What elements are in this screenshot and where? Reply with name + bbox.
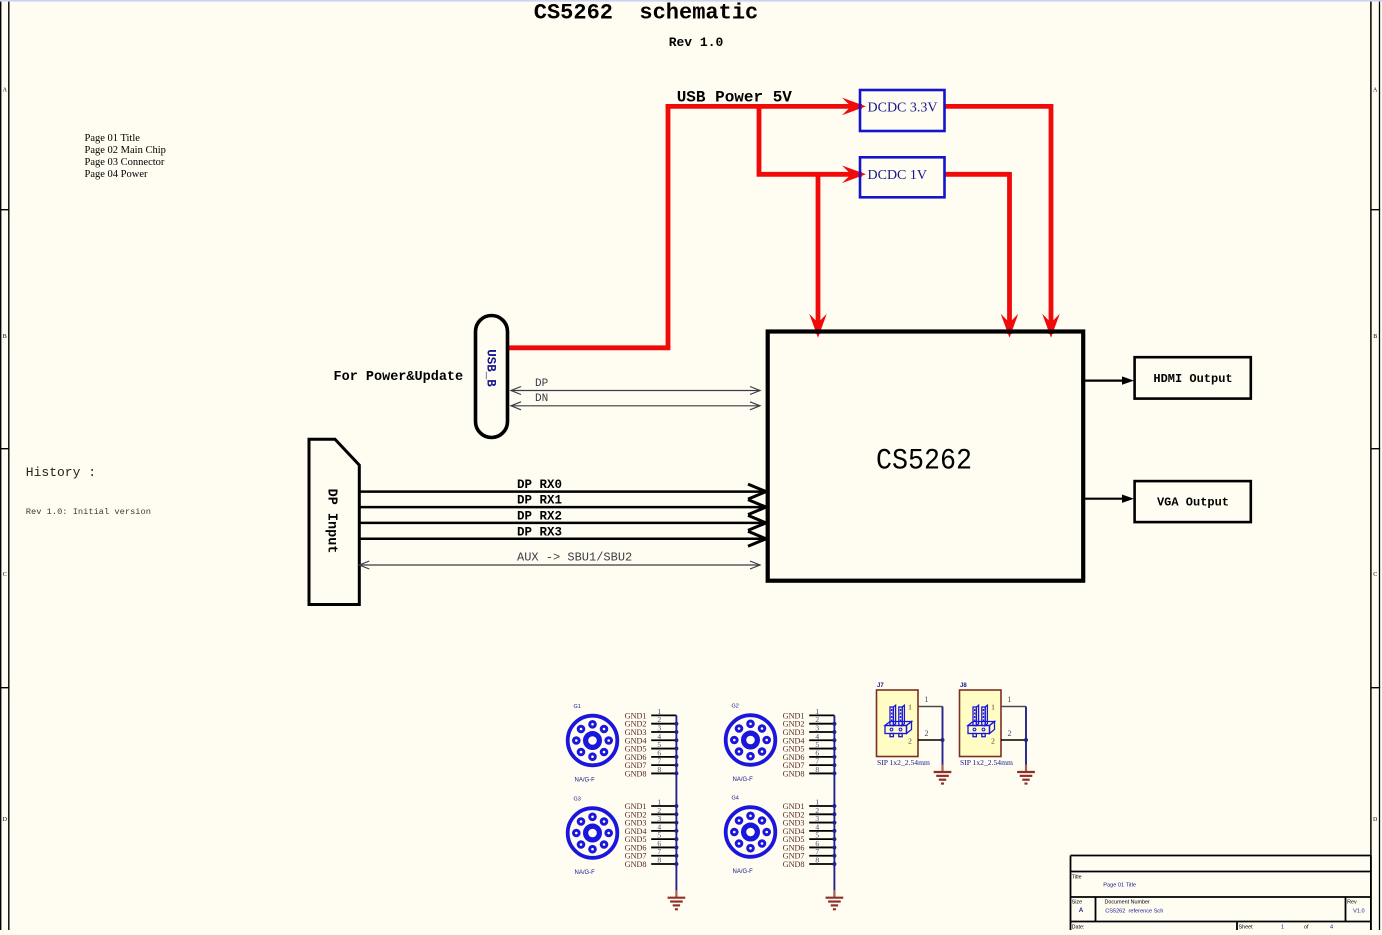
connector G4 value NA/G-F bbox=[733, 869, 754, 875]
svg-text:Rev 1.0: Initial version: Rev 1.0: Initial version bbox=[26, 507, 151, 517]
svg-text:B: B bbox=[3, 334, 7, 340]
jumper J8 pin 1 number bbox=[1008, 695, 1012, 704]
jumper J7 pin 1 wire bbox=[918, 706, 943, 708]
jumper J7 pin 2 number bbox=[925, 729, 929, 738]
connector G3 reference label bbox=[574, 797, 581, 803]
svg-text:8: 8 bbox=[657, 856, 661, 865]
sheet title CS5262 schematic bbox=[534, 1, 758, 26]
svg-text:B: B bbox=[1373, 334, 1377, 340]
label DP bbox=[535, 378, 549, 390]
svg-text:A: A bbox=[3, 88, 8, 94]
block HDMI Output bbox=[1135, 357, 1251, 398]
jumper J8 header icon bbox=[968, 705, 995, 737]
connector G2 value NA/G-F bbox=[733, 777, 754, 783]
svg-text:USB Power 5V: USB Power 5V bbox=[677, 89, 793, 107]
svg-text:G3: G3 bbox=[574, 797, 581, 803]
jumper J7 pin 1 number bbox=[925, 695, 929, 704]
wire 1V output horizontal bbox=[945, 172, 1010, 177]
jumper J8 pin 2 inside bbox=[991, 737, 995, 746]
svg-text:2: 2 bbox=[908, 737, 912, 746]
label DN bbox=[535, 393, 548, 405]
connector G1 pins GND1-GND8 bbox=[625, 707, 679, 779]
svg-text:GND8: GND8 bbox=[783, 860, 805, 869]
jumper J8 reference label bbox=[960, 683, 967, 689]
svg-text:Title: Title bbox=[1072, 875, 1082, 881]
title block rev value bbox=[1353, 908, 1365, 914]
svg-text:NA/G-F: NA/G-F bbox=[733, 869, 754, 875]
svg-text:1: 1 bbox=[1008, 695, 1012, 704]
svg-text:DP RX2: DP RX2 bbox=[517, 509, 562, 523]
svg-text:J8: J8 bbox=[960, 683, 967, 689]
connector G2 circular face bbox=[726, 715, 776, 765]
jumper J7 value SIP 1x2_2.54mm bbox=[877, 758, 930, 767]
wire AUX to SBU line bbox=[359, 561, 760, 569]
svg-text:USB_B: USB_B bbox=[484, 349, 498, 387]
svg-text:G1: G1 bbox=[574, 704, 581, 710]
svg-text:Rev: Rev bbox=[1347, 900, 1357, 906]
svg-text:History :: History : bbox=[26, 465, 96, 480]
sheet border right inner line bbox=[1370, 2, 1372, 930]
wire DP RX1 bbox=[359, 500, 766, 515]
connector G2 pins GND1-GND8 bbox=[783, 707, 837, 779]
title block Rev label bbox=[1347, 900, 1357, 906]
svg-text:1: 1 bbox=[908, 703, 912, 712]
connector G1 circular face bbox=[568, 716, 618, 766]
block VGA Output bbox=[1135, 481, 1251, 522]
label AUX -> SBU1/SBU2 bbox=[517, 551, 632, 565]
block DCDC 1V bbox=[860, 157, 945, 197]
wire DN data line bbox=[511, 402, 760, 410]
svg-text:Size: Size bbox=[1072, 899, 1083, 905]
label USB Power 5V bbox=[677, 89, 793, 107]
history heading text bbox=[26, 465, 96, 480]
wire DP data line bbox=[511, 387, 760, 395]
svg-text:SIP 1x2_2.54mm: SIP 1x2_2.54mm bbox=[877, 758, 930, 767]
svg-text:1: 1 bbox=[991, 703, 995, 712]
connector DP Input label bbox=[324, 489, 339, 554]
svg-text:DCDC 1V: DCDC 1V bbox=[868, 168, 928, 183]
title block document number value bbox=[1105, 908, 1163, 914]
sheet border right outer line bbox=[1379, 2, 1381, 930]
title block page title value bbox=[1103, 882, 1136, 888]
connector USB_B label bbox=[484, 349, 498, 387]
chip CS5262 label bbox=[876, 445, 972, 479]
svg-text:1: 1 bbox=[1281, 924, 1284, 930]
svg-text:8: 8 bbox=[657, 765, 661, 774]
connector G3 circular face bbox=[568, 808, 618, 858]
title block Sheet label bbox=[1239, 924, 1254, 930]
sheet border zone letters A-D bbox=[3, 88, 1378, 824]
svg-text:1: 1 bbox=[925, 695, 929, 704]
jumper J7 pin 2 wire bbox=[918, 739, 943, 741]
wire to HDMI Output bbox=[1084, 376, 1135, 384]
title block sheet count bbox=[1330, 924, 1333, 930]
svg-text:Page 03 Connector: Page 03 Connector bbox=[85, 157, 165, 168]
svg-text:GND8: GND8 bbox=[625, 769, 647, 778]
jumper J7 ground symbol bbox=[934, 772, 952, 784]
wire 3.3V output vertical drop bbox=[1049, 104, 1054, 334]
svg-text:G2: G2 bbox=[732, 704, 739, 710]
jumper J7 header icon bbox=[885, 705, 912, 737]
svg-text:CS5262: CS5262 bbox=[876, 445, 972, 479]
block DCDC 3.3V bbox=[860, 90, 945, 131]
jumper J8 pin 2 wire bbox=[1001, 739, 1026, 741]
svg-text:D: D bbox=[3, 817, 8, 823]
sheet subtitle Rev 1.0 bbox=[669, 35, 724, 50]
svg-text:GND8: GND8 bbox=[783, 769, 805, 778]
arrowhead into DCDC 1V bbox=[842, 166, 866, 184]
connector G3 value NA/G-F bbox=[575, 870, 596, 876]
ground symbol right column bbox=[826, 898, 844, 910]
title block Title label bbox=[1072, 875, 1082, 881]
connector USB_B body bbox=[476, 316, 508, 438]
jumper J8 pin 1 inside bbox=[991, 703, 995, 712]
title block of label bbox=[1304, 924, 1309, 930]
svg-text:Page 01 Title: Page 01 Title bbox=[85, 133, 141, 144]
svg-text:8: 8 bbox=[815, 856, 819, 865]
chip CS5262 body bbox=[768, 332, 1083, 581]
label DP RX2 bbox=[517, 509, 562, 523]
label DP RX1 bbox=[517, 494, 562, 508]
svg-text:V1.0: V1.0 bbox=[1353, 908, 1365, 914]
label For Power&Update bbox=[334, 370, 464, 385]
wire 1V output vertical drop bbox=[1007, 172, 1012, 334]
svg-text:DP Input: DP Input bbox=[324, 489, 339, 554]
wire 5V vertical from USB_B riser bbox=[666, 104, 671, 348]
svg-text:D: D bbox=[1373, 817, 1378, 823]
connector G4 circular face bbox=[726, 807, 776, 857]
jumper J7 reference label bbox=[877, 683, 884, 689]
arrowhead 3.3V into CS5262 top bbox=[1042, 314, 1060, 338]
jumper J8 value SIP 1x2_2.54mm bbox=[960, 758, 1013, 767]
arrowhead into DCDC 3.3V bbox=[842, 98, 866, 116]
svg-text:Date:: Date: bbox=[1072, 924, 1085, 930]
svg-text:VGA Output: VGA Output bbox=[1157, 496, 1229, 510]
jumper J8 ground symbol bbox=[1017, 772, 1035, 784]
jumper J7 body bbox=[877, 690, 919, 757]
svg-text:of: of bbox=[1304, 924, 1309, 930]
svg-text:Page 04 Power: Page 04 Power bbox=[85, 169, 148, 180]
connector G4 pins GND1-GND8 bbox=[783, 798, 837, 870]
svg-text:2: 2 bbox=[925, 729, 929, 738]
wire 5V drop into CS5262 bbox=[816, 174, 821, 334]
svg-text:NA/G-F: NA/G-F bbox=[575, 870, 596, 876]
wire DP RX0 bbox=[359, 484, 766, 499]
arrowhead 5V into CS5262 top bbox=[809, 314, 827, 338]
svg-text:AUX -> SBU1/SBU2: AUX -> SBU1/SBU2 bbox=[517, 551, 632, 565]
jumper J7 pin 2 inside bbox=[908, 737, 912, 746]
sheet border left inner line bbox=[8, 2, 10, 930]
svg-text:Rev 1.0: Rev 1.0 bbox=[669, 35, 724, 50]
svg-text:SIP 1x2_2.54mm: SIP 1x2_2.54mm bbox=[960, 758, 1013, 767]
wire 5V horizontal to DCDC 1V bbox=[757, 172, 862, 177]
svg-text:GND8: GND8 bbox=[625, 860, 647, 869]
title block Size label bbox=[1072, 899, 1083, 905]
title block Document Number label bbox=[1105, 900, 1150, 906]
wire to VGA Output bbox=[1084, 495, 1135, 503]
svg-text:A: A bbox=[1079, 908, 1084, 914]
jumper J8 body bbox=[960, 690, 1002, 757]
jumper J8 ground wire bbox=[1024, 707, 1028, 773]
wire 5V horizontal to USB_B bbox=[508, 345, 671, 350]
svg-text:Sheet: Sheet bbox=[1239, 924, 1254, 930]
title block frame bbox=[1071, 856, 1371, 931]
title block Date label bbox=[1072, 924, 1085, 930]
svg-text:NA/G-F: NA/G-F bbox=[575, 778, 596, 784]
svg-text:NA/G-F: NA/G-F bbox=[733, 777, 754, 783]
svg-text:2: 2 bbox=[991, 737, 995, 746]
wire DP RX2 bbox=[359, 515, 766, 530]
svg-text:DP RX0: DP RX0 bbox=[517, 478, 562, 492]
svg-text:J7: J7 bbox=[877, 683, 884, 689]
wire 5V top horizontal to DCDC 3.3V bbox=[666, 104, 862, 109]
svg-text:For Power&Update: For Power&Update bbox=[334, 370, 464, 385]
connector G1 reference label bbox=[574, 704, 581, 710]
title block sheet number bbox=[1281, 924, 1284, 930]
label DP RX0 bbox=[517, 478, 562, 492]
wire DP RX3 bbox=[359, 531, 766, 546]
svg-text:Page 02 Main Chip: Page 02 Main Chip bbox=[85, 145, 166, 156]
sheet border zone tick marks bbox=[0, 210, 1380, 688]
svg-text:DN: DN bbox=[535, 393, 548, 405]
jumper J7 ground wire bbox=[941, 707, 945, 773]
svg-text:DP RX1: DP RX1 bbox=[517, 494, 562, 508]
svg-text:CS5262 schematic: CS5262 schematic bbox=[534, 1, 758, 26]
wire 5V branch vertical to DCDC 1V row bbox=[757, 104, 762, 174]
jumper J8 pin 2 number bbox=[1008, 729, 1012, 738]
svg-text:2: 2 bbox=[1008, 729, 1012, 738]
arrowhead 1V into CS5262 top bbox=[1001, 314, 1019, 338]
ground symbol left column bbox=[668, 898, 686, 910]
svg-text:HDMI Output: HDMI Output bbox=[1153, 372, 1232, 386]
history revision text bbox=[26, 507, 151, 517]
svg-text:Document Number: Document Number bbox=[1105, 900, 1150, 906]
connector G2 reference label bbox=[732, 704, 739, 710]
title block size value A bbox=[1079, 908, 1084, 914]
connector G3 pins GND1-GND8 bbox=[625, 798, 679, 870]
ground bus right column bbox=[833, 715, 835, 897]
svg-text:Page 01 Title: Page 01 Title bbox=[1103, 882, 1136, 888]
jumper J8 pin 1 wire bbox=[1001, 706, 1026, 708]
svg-text:4: 4 bbox=[1330, 924, 1333, 930]
svg-text:C: C bbox=[1373, 572, 1377, 578]
svg-text:8: 8 bbox=[815, 765, 819, 774]
svg-text:A: A bbox=[1373, 88, 1378, 94]
svg-text:G4: G4 bbox=[732, 796, 739, 802]
connector DP Input body bbox=[309, 439, 359, 604]
ground bus left column bbox=[675, 715, 677, 897]
page index text list bbox=[85, 133, 166, 180]
svg-text:DCDC 3.3V: DCDC 3.3V bbox=[868, 101, 938, 116]
top page margin strip bbox=[0, 0, 1382, 2]
label DP RX3 bbox=[517, 525, 562, 539]
wire 3.3V output horizontal bbox=[945, 104, 1052, 109]
connector G1 value NA/G-F bbox=[575, 778, 596, 784]
sheet border left outer line bbox=[0, 2, 2, 930]
svg-text:C: C bbox=[3, 572, 7, 578]
svg-text:DP: DP bbox=[535, 378, 549, 390]
svg-text:DP RX3: DP RX3 bbox=[517, 525, 562, 539]
jumper J7 pin 1 inside bbox=[908, 703, 912, 712]
connector G4 reference label bbox=[732, 796, 739, 802]
svg-text:CS5262 reference Sch: CS5262 reference Sch bbox=[1105, 908, 1163, 914]
